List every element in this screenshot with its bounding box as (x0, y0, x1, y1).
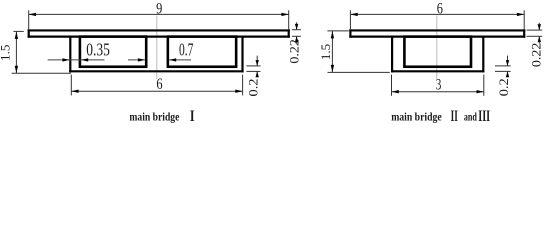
svg-text:6: 6 (437, 1, 443, 18)
dimension 9 (top) (29, 10, 289, 29)
svg-text:0.22: 0.22 (529, 43, 544, 68)
deck bottom edge (28, 35, 290, 37)
cell 1 (left void) (80, 37, 146, 67)
deck top edge (349, 29, 525, 31)
dimension 0.35 (left web thickness) (48, 59, 105, 61)
dimension 0.7 (middle web thickness) (128, 59, 191, 61)
svg-text:6: 6 (156, 76, 162, 93)
deck bottom edge (349, 35, 525, 37)
centerline left section (156, 16, 158, 79)
svg-text:I: I (190, 108, 195, 125)
dimension 1.5 (left) (12, 31, 71, 73)
deck right end cap (523, 29, 525, 37)
svg-text:0.22: 0.22 (286, 39, 301, 64)
deck left end cap (28, 29, 30, 37)
deck left end cap (349, 29, 351, 37)
svg-text:1.5: 1.5 (0, 45, 12, 61)
svg-text:main bridge: main bridge (129, 110, 180, 124)
svg-text:main bridge: main bridge (391, 110, 442, 124)
centerline right section (436, 16, 438, 79)
svg-text:0.2: 0.2 (496, 78, 511, 96)
right web outer face (482, 36, 484, 72)
svg-text:0.7: 0.7 (179, 40, 193, 60)
box bottom edge (391, 70, 484, 72)
deck top edge (28, 29, 290, 31)
svg-text:3: 3 (436, 77, 442, 94)
dimension 1.5 (left of right drawing) (327, 31, 389, 73)
cell (single void) (404, 37, 471, 67)
svg-text:III: III (478, 108, 490, 125)
dimension 0.2 (bottom slab thickness, right drawing) (495, 56, 511, 78)
svg-text:II: II (451, 108, 458, 125)
cell 2 (right void) (168, 37, 236, 67)
dimension 3 (bottom right drawing) (392, 75, 484, 96)
deck right end cap (288, 29, 290, 37)
dimension 6 (top right drawing) (350, 10, 524, 29)
right web outer face (241, 36, 243, 72)
svg-text:1.5: 1.5 (319, 44, 333, 60)
left web outer face (391, 36, 393, 72)
svg-text:0.35: 0.35 (86, 40, 110, 60)
dimension 0.2 (bottom slab thickness, left drawing) (246, 56, 260, 78)
dimension 6 (bottom) (71, 75, 242, 96)
box bottom edge (69, 70, 243, 72)
dimension 0.22 (deck thickness, right drawing) (527, 23, 543, 44)
svg-text:0.2: 0.2 (246, 79, 261, 97)
left web outer face (69, 36, 71, 72)
svg-text:and: and (464, 110, 477, 124)
dimension 0.22 (deck thickness, right of left drawing) (292, 22, 301, 43)
svg-text:9: 9 (156, 1, 162, 18)
